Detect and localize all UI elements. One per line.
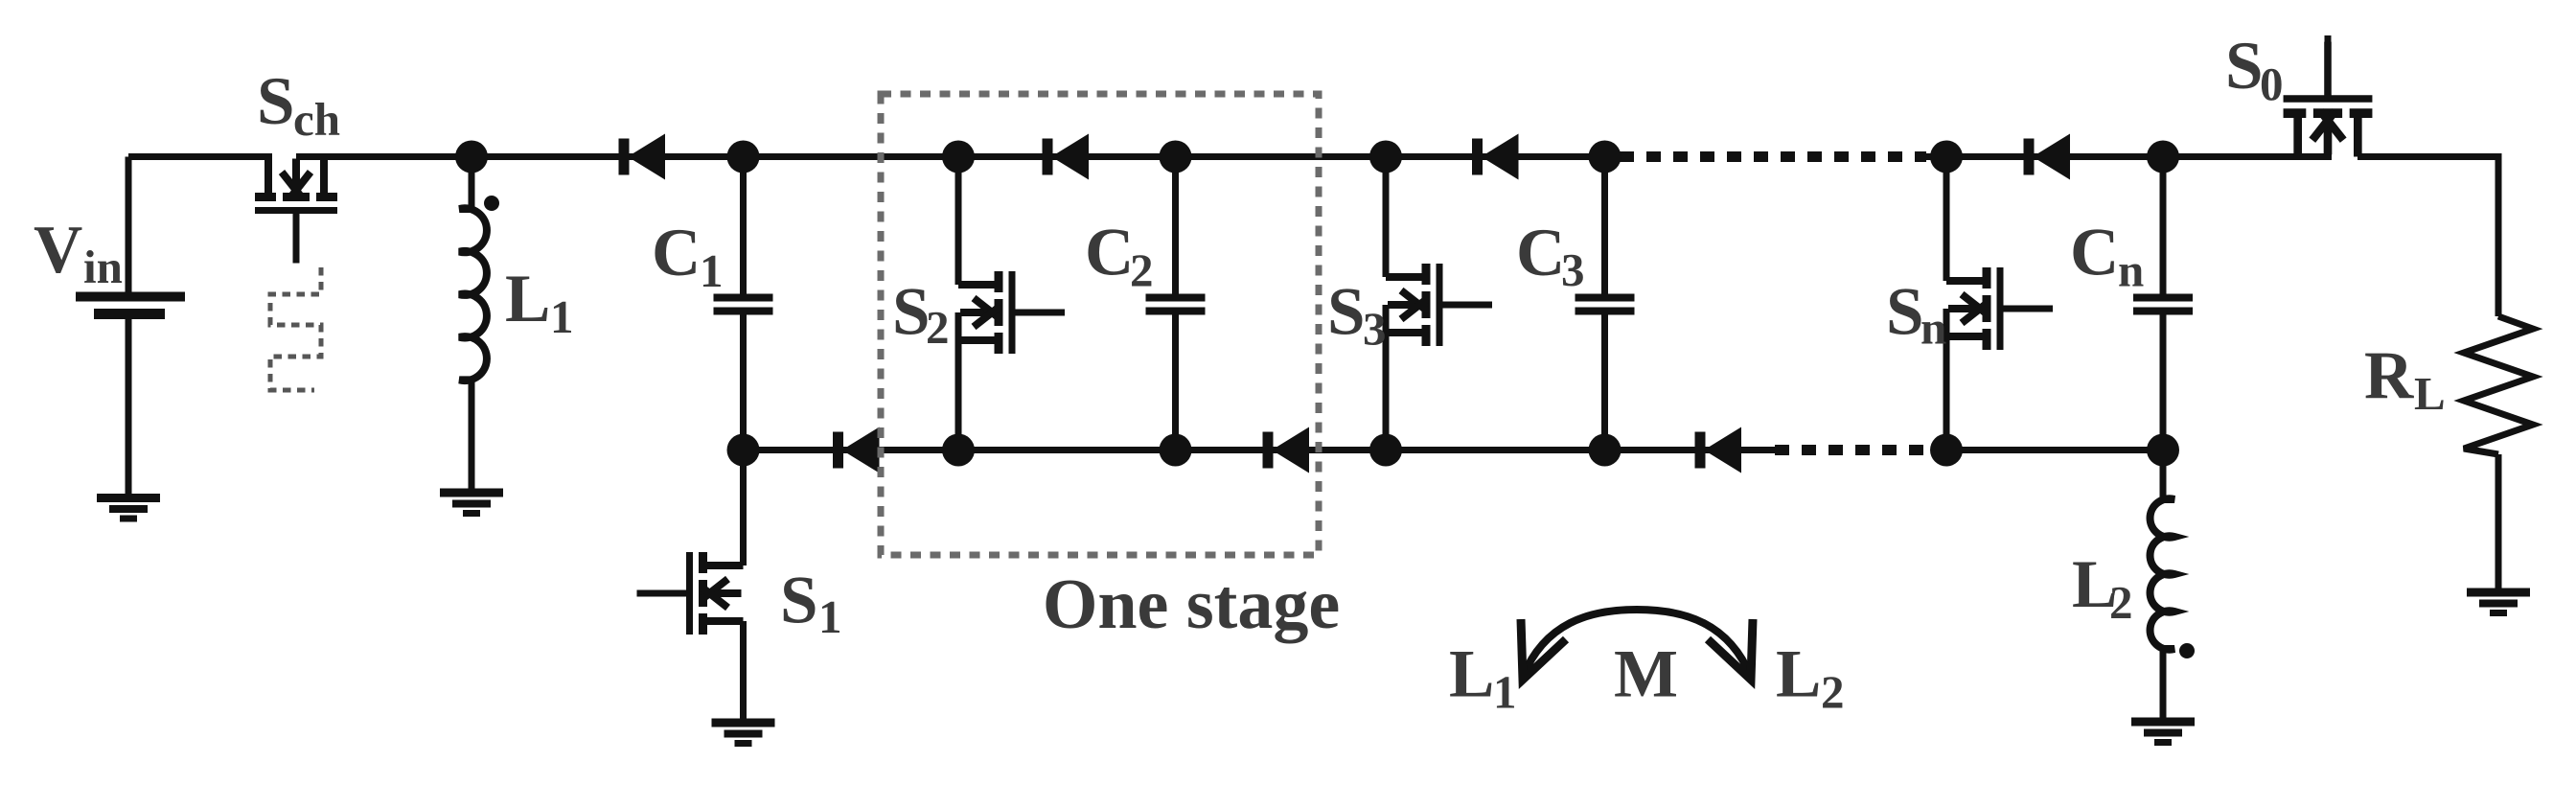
wire RL bottom to ground xyxy=(2495,454,2502,589)
inductor L2 xyxy=(2150,498,2174,649)
wire from L2 to ground xyxy=(2160,648,2167,719)
wire top rail from Sn node to S0 drain xyxy=(1926,153,2332,160)
wire C3 branch top xyxy=(1601,157,1608,295)
wire Vin branch upper xyxy=(126,157,132,295)
wire Vin branch lower to ground xyxy=(126,319,132,495)
diode D3 top rail between S3 and C3 xyxy=(1478,134,1519,180)
wire C1 branch bottom xyxy=(740,314,747,450)
svg-text:M: M xyxy=(1614,637,1678,712)
svg-text:2: 2 xyxy=(2109,576,2133,629)
node Cn top xyxy=(2147,141,2179,173)
svg-text:2: 2 xyxy=(1130,244,1154,297)
svg-text:One stage: One stage xyxy=(1043,566,1340,644)
arrowhead right of mutual arc xyxy=(1708,619,1753,680)
svg-text:S: S xyxy=(257,64,295,139)
svg-text:L: L xyxy=(505,262,550,336)
diode D7 bottom rail between C3 and Sn xyxy=(1700,427,1741,473)
node Sn top xyxy=(1930,141,1963,173)
polarity dot of L2 xyxy=(2179,643,2195,658)
svg-text:3: 3 xyxy=(1363,303,1387,356)
node C1 top xyxy=(727,141,760,173)
wire from Cn node down to L2 xyxy=(2160,450,2167,501)
wire from bottom rail down to S1 xyxy=(740,450,747,566)
svg-text:1: 1 xyxy=(700,244,724,297)
ground below S1 xyxy=(712,723,775,744)
resistor RL xyxy=(2464,316,2533,454)
wire Sn branch top xyxy=(1943,157,1950,282)
svg-text:S: S xyxy=(2225,29,2264,104)
wire C1 branch top xyxy=(740,157,747,295)
one stage dashed box xyxy=(881,94,1319,555)
svg-text:ch: ch xyxy=(293,93,340,146)
node C1 bottom xyxy=(727,434,760,467)
gate pulse waveform of Sch xyxy=(270,267,321,390)
svg-text:1: 1 xyxy=(818,590,842,643)
wire S3 branch top xyxy=(1383,157,1390,278)
capacitor C1 xyxy=(714,298,773,312)
svg-text:3: 3 xyxy=(1561,243,1585,296)
wire S3 branch bottom xyxy=(1383,305,1390,450)
wire C2 branch bottom xyxy=(1172,314,1179,450)
transistor Sn xyxy=(1946,267,2053,350)
mutual inductance arc M xyxy=(1523,610,1751,677)
node S2 top xyxy=(942,141,975,173)
svg-text:R: R xyxy=(2364,338,2414,413)
wire from S1 source to ground xyxy=(740,621,747,720)
diode D4 top rail between Sn and Cn xyxy=(2029,134,2070,180)
node S3 bottom xyxy=(1369,434,1402,467)
wire S2 branch bottom xyxy=(955,312,962,450)
svg-text:L: L xyxy=(2414,367,2446,420)
wire top rail left from Vin to Sch drain xyxy=(128,153,272,160)
wire top rail from S0 source to output corner xyxy=(2357,153,2502,160)
node Sn bottom xyxy=(1930,434,1963,467)
wire Sn branch bottom xyxy=(1943,309,1950,450)
node C2 top xyxy=(1160,141,1192,173)
svg-text:S: S xyxy=(1327,275,1366,350)
diode D6 bottom rail between C2 and S3 xyxy=(1268,427,1309,473)
wire top rail dotted continuation C3 node to Sn node xyxy=(1620,151,1926,162)
inductor L1 xyxy=(459,208,487,381)
svg-text:S: S xyxy=(1886,275,1924,350)
ground below RL xyxy=(2467,592,2530,613)
diode D5 bottom rail between C1 and S2 xyxy=(839,427,880,473)
capacitor C2 xyxy=(1146,298,1206,312)
arrowhead left of mutual arc xyxy=(1521,619,1566,680)
node C2 bottom xyxy=(1160,434,1192,467)
transistor Sch xyxy=(255,157,337,264)
ground below L2 xyxy=(2131,722,2195,743)
ground below L1 xyxy=(440,493,503,514)
wire bottom rail dotted continuation to Sn node xyxy=(1775,445,1946,455)
svg-text:1: 1 xyxy=(550,290,574,343)
node C3 top xyxy=(1589,141,1621,173)
node Cn bottom xyxy=(2147,434,2179,467)
transistor S0 xyxy=(2284,42,2373,157)
ground below Vin xyxy=(97,498,160,519)
svg-text:V: V xyxy=(34,213,82,288)
svg-text:in: in xyxy=(83,241,123,293)
transistor S1 xyxy=(637,552,744,635)
svg-text:C: C xyxy=(652,216,701,290)
node S3 top xyxy=(1369,141,1402,173)
capacitor C3 xyxy=(1575,298,1635,312)
svg-text:C: C xyxy=(1516,216,1565,290)
svg-text:L: L xyxy=(1776,637,1821,712)
svg-text:S: S xyxy=(892,275,931,350)
svg-text:1: 1 xyxy=(1493,666,1517,719)
wire bottom rail from Sn node to Cn node xyxy=(1946,447,2163,453)
wire output corner down to RL xyxy=(2495,157,2502,317)
wire S2 branch top xyxy=(955,157,962,286)
svg-text:0: 0 xyxy=(2260,58,2284,110)
svg-text:2: 2 xyxy=(926,301,950,354)
transistor S3 xyxy=(1386,264,1492,346)
node L1 top xyxy=(455,141,488,173)
polarity dot of L1 xyxy=(484,196,499,211)
wire L1 branch top xyxy=(469,157,475,211)
wire Cn branch bottom xyxy=(2160,314,2167,450)
node C3 bottom xyxy=(1589,434,1621,467)
svg-text:n: n xyxy=(1920,302,1946,355)
gate lead extension of S0 xyxy=(2325,35,2332,52)
diode D2 top rail between S2 and C2 xyxy=(1047,134,1089,180)
svg-text:S: S xyxy=(780,564,818,638)
node S2 bottom xyxy=(942,434,975,467)
transistor S2 xyxy=(958,271,1065,354)
wire bottom rail from C1 node to diode before Sn xyxy=(744,447,1776,453)
svg-text:2: 2 xyxy=(1821,666,1845,719)
wire Cn branch top xyxy=(2160,157,2167,295)
svg-text:n: n xyxy=(2118,244,2144,297)
diode D1 top rail between L1 and C1 xyxy=(624,134,665,180)
svg-text:C: C xyxy=(2070,216,2119,290)
battery Vin xyxy=(76,297,185,314)
wire C2 branch top xyxy=(1172,157,1179,295)
svg-text:C: C xyxy=(1085,216,1134,290)
capacitor Cn xyxy=(2133,298,2193,312)
wire C3 branch bottom xyxy=(1601,314,1608,450)
wire top rail main from Sch source to C3 node xyxy=(296,153,1620,160)
svg-text:L: L xyxy=(1449,637,1494,712)
wire L1 branch bottom to ground xyxy=(469,381,475,493)
